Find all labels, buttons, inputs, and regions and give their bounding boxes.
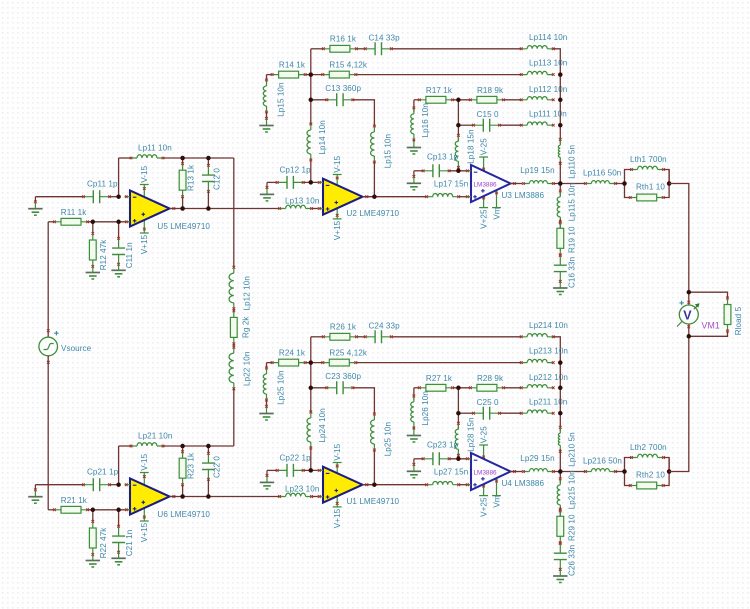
svg-text:U3 LM3886: U3 LM3886 <box>502 191 545 200</box>
power amp pin Vm of U3 LM3886 <box>496 187 498 208</box>
ground below C21 1n <box>118 552 120 558</box>
svg-text:Rg 2k: Rg 2k <box>242 316 251 338</box>
wire: power stage output <box>510 183 522 185</box>
wire <box>559 568 561 571</box>
svg-text:LM3886: LM3886 <box>474 469 498 476</box>
capacitor Cp22 1p <box>277 469 303 471</box>
svg-text:Vsource: Vsource <box>61 344 92 353</box>
svg-text:V+15: V+15 <box>333 508 342 528</box>
capacitor C14 33p <box>365 48 391 50</box>
wire <box>559 219 561 228</box>
ground below Lp26 10n <box>413 430 415 436</box>
wire <box>457 455 459 459</box>
svg-text:R12 47k: R12 47k <box>99 239 108 271</box>
inductor Lp114 10n <box>527 46 547 49</box>
svg-text:R25 4,12k: R25 4,12k <box>329 348 367 357</box>
power amp pin V-25 of U3 LM3886 <box>483 157 485 178</box>
wire <box>449 458 471 460</box>
op-amp power pin V+15 of U5 LME49710 <box>143 218 145 234</box>
wire <box>559 472 561 483</box>
op-amp power pin V+15 of U1 LME49710 <box>336 494 338 507</box>
wire <box>207 191 209 208</box>
power amp pin V+25 of U4 LM3886 <box>483 480 485 496</box>
ground <box>266 476 268 482</box>
svg-text:C21 1n: C21 1n <box>125 530 134 557</box>
wire: feedback top <box>119 445 131 447</box>
wire <box>182 197 184 209</box>
svg-text:Lp24 10n: Lp24 10n <box>318 408 327 442</box>
svg-text:C16 33n: C16 33n <box>567 257 576 288</box>
wire: R input row <box>48 509 54 511</box>
resistor R26 1k <box>323 336 356 338</box>
svg-text:Vm: Vm <box>492 207 501 219</box>
svg-text:Lp212 10n: Lp212 10n <box>529 373 568 382</box>
svg-text:Lp23 10n: Lp23 10n <box>285 484 319 493</box>
svg-text:V+15: V+15 <box>140 522 149 542</box>
wire <box>559 542 561 545</box>
wire <box>182 446 184 452</box>
svg-text:Lp25 10n: Lp25 10n <box>383 422 392 456</box>
wire: R16 row <box>311 336 324 338</box>
inductor Lp19 15n <box>529 181 547 184</box>
wire <box>688 292 690 305</box>
inductor Lp17 15n <box>433 194 453 197</box>
capacitor C11 1n <box>118 238 120 264</box>
ground below Lp15 10n <box>266 120 268 126</box>
inductor Lp18 15n <box>455 141 458 161</box>
svg-text:Cp12 1p: Cp12 1p <box>280 165 312 174</box>
svg-text:R18 9k: R18 9k <box>477 86 504 95</box>
power amp pin V+25 of U3 LM3886 <box>483 192 485 208</box>
svg-text:V+15: V+15 <box>333 220 342 240</box>
wire: C13 row <box>311 99 327 101</box>
resistor R11 1k <box>55 221 88 223</box>
resistor R28 9k <box>470 387 503 389</box>
power amp pin Vm of U4 LM3886 <box>496 475 498 496</box>
inductor Lth2 700n <box>638 454 658 457</box>
inductor Lp27 15n <box>433 482 453 485</box>
svg-text:Cp22 1p: Cp22 1p <box>280 453 312 462</box>
wire <box>92 510 94 522</box>
wire <box>207 158 209 165</box>
wire <box>615 471 624 473</box>
inductor Lp214 10n <box>527 334 547 337</box>
junction dots <box>116 194 121 199</box>
svg-text:Cp13 1p: Cp13 1p <box>427 153 459 162</box>
wire <box>233 309 235 311</box>
wire: bottom output to voltmeter <box>669 336 689 471</box>
svg-text:U4 LM3886: U4 LM3886 <box>502 479 545 488</box>
svg-text:Rth1 10: Rth1 10 <box>636 183 665 192</box>
svg-text:Lp210 5n: Lp210 5n <box>567 432 576 466</box>
svg-text:R13 1k: R13 1k <box>187 164 196 191</box>
svg-text:Lp111 10n: Lp111 10n <box>529 109 567 118</box>
resistor R22 47k <box>92 522 94 555</box>
svg-text:Lp27 15n: Lp27 15n <box>434 468 468 477</box>
capacitor Cp12 1p <box>277 181 303 183</box>
resistor R18 9k <box>470 99 503 101</box>
wire: R17 R18 row <box>414 99 420 101</box>
op-amp U1 LME49710 <box>323 467 363 503</box>
inductor Lp28 15n <box>455 429 458 449</box>
inductor Lth1 700n <box>638 166 658 169</box>
svg-text:U5 LME49710: U5 LME49710 <box>157 222 210 231</box>
resistor R27 1k <box>419 387 452 389</box>
svg-text:R11 1k: R11 1k <box>61 208 87 217</box>
junction dots at voltmeter <box>687 290 692 295</box>
svg-text:Lth2 700n: Lth2 700n <box>630 443 667 452</box>
inductor Lp21 10n <box>137 443 157 446</box>
capacitor Cp21 1p <box>84 484 110 486</box>
svg-text:V-15: V-15 <box>333 443 342 460</box>
wire <box>303 181 323 183</box>
svg-text:Lp110 5n: Lp110 5n <box>567 145 576 179</box>
wire <box>373 162 375 197</box>
svg-text:V+15: V+15 <box>140 234 149 254</box>
wire <box>559 254 561 257</box>
svg-text:C15 0: C15 0 <box>477 110 499 119</box>
resistor R16 1k <box>323 48 356 50</box>
svg-text:V+25: V+25 <box>479 209 488 229</box>
inductor Lp25 10n <box>371 420 375 444</box>
svg-text:Lth1 700n: Lth1 700n <box>630 155 667 164</box>
inductor Lp26 10n <box>411 402 414 422</box>
svg-text:R23 1k: R23 1k <box>187 452 196 479</box>
svg-text:V-25: V-25 <box>479 138 488 155</box>
ground below Lp25 10n <box>266 408 268 414</box>
op-amp power pin V-15 of U1 LME49710 <box>336 463 338 479</box>
resistor R21 1k <box>55 509 88 511</box>
svg-text:R26 1k: R26 1k <box>330 323 357 332</box>
wire: inverting node vertical <box>118 446 120 485</box>
svg-text:C12 0: C12 0 <box>213 168 222 190</box>
wire <box>266 363 268 368</box>
inductor Lp216 50n <box>591 469 609 472</box>
svg-text:C13 360p: C13 360p <box>325 84 361 93</box>
ground below R12 47k <box>92 267 94 273</box>
wire <box>303 469 323 471</box>
inductor Lp11 10n <box>137 155 157 158</box>
svg-text:V-25: V-25 <box>479 426 488 443</box>
wire: bus corner <box>553 49 560 75</box>
svg-text:Rth2 10: Rth2 10 <box>636 471 665 480</box>
svg-text:Vm: Vm <box>492 495 501 507</box>
op-amp power pin V-15 of U2 LME49710 <box>336 175 338 191</box>
svg-text:C23 360p: C23 360p <box>325 372 361 381</box>
wire: bus corner <box>553 337 560 363</box>
svg-text:R22 47k: R22 47k <box>99 527 108 559</box>
svg-text:Lp216 50n: Lp216 50n <box>583 457 622 466</box>
ground below C11 1n <box>118 264 120 270</box>
svg-text:R24 1k: R24 1k <box>279 348 306 357</box>
svg-text:Lp11 10n: Lp11 10n <box>138 144 172 153</box>
wire: input ground net top <box>35 196 83 198</box>
wire: R17 R18 row <box>414 387 420 389</box>
capacitor C15 0 <box>474 124 500 126</box>
capacitor C22 0 <box>207 453 209 479</box>
svg-text:Lp28 15n: Lp28 15n <box>467 417 476 451</box>
svg-text:C11 1n: C11 1n <box>125 242 134 268</box>
resistor R24 1k <box>272 362 305 364</box>
wire <box>559 449 561 471</box>
wire + ground for Cp12 1p <box>267 181 277 183</box>
ground below C16 33n <box>559 282 561 288</box>
ground below C26 33n <box>559 570 561 576</box>
svg-text:C26 33n: C26 33n <box>567 545 576 576</box>
inductor Lp215 10n <box>557 485 560 505</box>
inductor Lp24 10n <box>307 418 311 442</box>
inductor Lp210 5n <box>558 433 560 445</box>
svg-text:R21 1k: R21 1k <box>61 496 88 505</box>
svg-text:R17 1k: R17 1k <box>426 86 453 95</box>
wire: C13 row <box>311 387 327 389</box>
svg-text:R28 9k: R28 9k <box>477 374 504 383</box>
svg-text:Lp19 15n: Lp19 15n <box>520 166 554 175</box>
inductor Lp23 10n <box>286 493 306 496</box>
wire <box>615 183 624 185</box>
op-amp power pin V-15 of U5 LME49710 <box>143 185 145 201</box>
svg-text:Lp15 10n: Lp15 10n <box>276 82 285 116</box>
wire <box>559 507 561 516</box>
svg-text:Lp116 50n: Lp116 50n <box>583 169 621 178</box>
inductor Lp212 10n <box>527 385 547 388</box>
resistor R29 10 <box>559 510 561 543</box>
inductor Lp14 10n <box>307 130 311 154</box>
inductor Lp22 <box>229 353 234 383</box>
inductor Lp29 15n <box>529 469 547 472</box>
wire <box>449 170 471 172</box>
wire: R input row <box>48 221 54 223</box>
wire <box>413 388 415 400</box>
svg-text:V: V <box>683 308 692 322</box>
svg-text:C14 33p: C14 33p <box>369 33 401 42</box>
resistor Rth2 10 <box>630 485 663 487</box>
resistor R23 1k <box>182 452 184 485</box>
capacitor C12 0 <box>207 165 209 191</box>
wire <box>207 479 209 496</box>
wire: C15 row <box>458 412 473 414</box>
wire <box>457 100 459 142</box>
wire: feedback top <box>119 157 131 159</box>
wire + ground for Cp22 1p <box>267 469 277 471</box>
resistor Rth1 10 <box>630 197 663 199</box>
wire <box>182 485 184 497</box>
wire: second stage output <box>363 196 427 198</box>
voltmeter VM1 <box>687 301 690 304</box>
svg-text:Lp21 10n: Lp21 10n <box>138 432 172 441</box>
wire <box>457 388 459 430</box>
junction dots <box>116 482 121 487</box>
wire: first stage output <box>170 208 280 210</box>
svg-text:V+25: V+25 <box>479 497 488 517</box>
svg-text:Lp211 10n: Lp211 10n <box>529 397 567 406</box>
svg-text:Lp16 10n: Lp16 10n <box>421 103 430 137</box>
resistor R13 1k <box>182 164 184 197</box>
op-amp power pin V+15 of U6 LME49710 <box>143 506 145 522</box>
inductor Lp113 10n <box>527 71 547 74</box>
wire <box>233 344 235 348</box>
svg-text:R27 1k: R27 1k <box>426 374 453 383</box>
svg-text:Lp22 10n: Lp22 10n <box>242 352 251 386</box>
wire: R16 row <box>311 48 324 50</box>
wire <box>559 280 561 283</box>
svg-text:U6 LME49710: U6 LME49710 <box>157 510 210 519</box>
wire + ground for Cp13 1p <box>414 170 423 172</box>
wire <box>207 446 209 453</box>
svg-text:Lp213 10n: Lp213 10n <box>529 347 568 356</box>
svg-text:R19 10: R19 10 <box>567 226 576 253</box>
capacitor C24 33p <box>365 336 391 338</box>
svg-text:Lp15 10n: Lp15 10n <box>383 134 392 168</box>
svg-text:Lp17 15n: Lp17 15n <box>434 180 468 189</box>
svg-text:Cp11 1p: Cp11 1p <box>87 179 118 188</box>
svg-text:C25 0: C25 0 <box>477 398 499 407</box>
resistor R17 1k <box>419 99 452 101</box>
wire: feedback interconnect chain between channels <box>233 158 235 267</box>
wire <box>457 167 459 171</box>
inductor Lp115 10n <box>557 197 560 217</box>
inductor Lp13 10n <box>286 205 306 208</box>
ground below R22 47k <box>92 555 94 561</box>
voltage source Vsource <box>47 329 50 332</box>
power amp U3 LM3886 <box>471 165 511 202</box>
wire: four-coil bus vertical <box>559 75 561 144</box>
wire <box>413 428 415 430</box>
svg-text:Cp23 1p: Cp23 1p <box>427 441 459 450</box>
svg-text:C24 33p: C24 33p <box>369 321 401 330</box>
inductor Lp112 10n <box>527 97 547 100</box>
wire <box>233 388 235 446</box>
inductor Lp110 5n <box>558 145 560 157</box>
wire <box>559 184 561 195</box>
resistor R12 47k <box>92 234 94 267</box>
wire <box>110 196 119 198</box>
svg-text:VM1: VM1 <box>702 321 720 331</box>
wire: inverting node vertical <box>118 158 120 197</box>
capacitor C23 360p <box>327 387 353 389</box>
capacitor Cp11 1p <box>84 196 110 198</box>
inductor Lp12 <box>229 273 234 303</box>
op-amp power pin V-15 of U6 LME49710 <box>143 473 145 489</box>
svg-text:V-15: V-15 <box>140 453 149 470</box>
wire <box>373 450 375 485</box>
op-amp U6 LME49710 <box>130 479 170 515</box>
svg-text:Cp21 1p: Cp21 1p <box>87 467 119 476</box>
wire: inverting vertical of U1 LME49710 <box>310 446 312 470</box>
wire <box>559 161 561 183</box>
resistor R14 1k <box>272 74 305 76</box>
wire <box>310 49 312 124</box>
svg-text:Lp214 10n: Lp214 10n <box>529 321 568 330</box>
ground (input) <box>34 491 36 497</box>
inductor Lp211 10n <box>527 410 547 413</box>
inductor Lp16 10n <box>411 114 414 134</box>
resistor Rg <box>233 311 235 344</box>
svg-text:V-15: V-15 <box>140 165 149 182</box>
resistor Rload <box>689 292 728 298</box>
wire <box>266 75 268 80</box>
wire <box>92 222 94 234</box>
wire <box>118 510 120 527</box>
wire: four-coil bus vertical <box>559 363 561 432</box>
resistor R25 4,12k <box>323 362 356 364</box>
inductor Lp116 50n <box>591 181 609 184</box>
capacitor C13 360p <box>327 99 353 101</box>
svg-text:C22 0: C22 0 <box>213 456 222 478</box>
wire: Lth Rth parallel loop <box>625 170 632 184</box>
ground <box>413 465 415 471</box>
svg-text:Lp26 10n: Lp26 10n <box>421 391 430 425</box>
svg-text:Lp14 10n: Lp14 10n <box>318 120 327 154</box>
wire: R14 R15 row <box>267 74 273 76</box>
ground <box>266 188 268 194</box>
ground <box>413 177 415 183</box>
svg-text:Lp115 10n: Lp115 10n <box>567 183 576 221</box>
resistor R19 10 <box>559 222 561 255</box>
wire: Vsource vertical bottom <box>47 356 49 510</box>
op-amp U2 LME49710 <box>323 179 363 215</box>
inductor Lp25 10n <box>263 374 266 394</box>
wire <box>266 400 268 408</box>
wire: C15 row <box>458 124 473 126</box>
wire <box>110 484 119 486</box>
svg-text:Lp18 15n: Lp18 15n <box>467 129 476 163</box>
wire: R14 R15 row <box>267 362 273 364</box>
power amp pin V-25 of U4 LM3886 <box>483 445 485 466</box>
svg-text:V-15: V-15 <box>333 155 342 172</box>
capacitor C25 0 <box>474 412 500 414</box>
svg-text:Rload 5: Rload 5 <box>734 306 743 335</box>
ground (input) <box>34 203 36 209</box>
svg-text:LM3886: LM3886 <box>474 181 498 188</box>
svg-text:R14 1k: R14 1k <box>279 60 306 69</box>
svg-text:Lp114 10n: Lp114 10n <box>529 33 567 42</box>
wire: first stage output <box>170 496 280 498</box>
svg-text:Lp13 10n: Lp13 10n <box>285 196 319 205</box>
svg-text:R15 4,12k: R15 4,12k <box>329 60 367 69</box>
svg-text:Lp113 10n: Lp113 10n <box>529 59 567 68</box>
wire <box>413 140 415 142</box>
inductor Lp213 10n <box>527 359 547 362</box>
capacitor Cp23 1p <box>423 458 449 460</box>
svg-text:Lp25 10n: Lp25 10n <box>276 370 285 404</box>
wire <box>118 222 120 239</box>
svg-text:U2 LME49710: U2 LME49710 <box>347 209 400 218</box>
resistor R15 4,12k <box>323 74 356 76</box>
capacitor C21 1n <box>118 526 120 552</box>
wire <box>182 158 184 164</box>
op-amp U5 LME49710 <box>130 191 170 227</box>
svg-text:R29 10: R29 10 <box>567 514 576 541</box>
svg-text:Lp215 10n: Lp215 10n <box>567 470 576 509</box>
inductor Lp111 10n <box>527 122 547 125</box>
wire: input ground net bottom <box>35 484 83 486</box>
capacitor C26 33n <box>559 543 561 569</box>
wire <box>413 100 415 112</box>
svg-text:Lp12 10n: Lp12 10n <box>242 276 251 310</box>
wire: second stage output <box>363 484 427 486</box>
wire: top output to voltmeter <box>669 184 689 293</box>
wire + ground for Cp23 1p <box>414 458 423 460</box>
svg-text:Lp29 15n: Lp29 15n <box>520 454 554 463</box>
power amp U4 LM3886 <box>471 453 511 490</box>
wire: Vsource vertical top <box>47 222 49 337</box>
inductor Lp15 10n <box>371 132 375 156</box>
inductor Lp15 10n <box>263 86 266 106</box>
capacitor Cp13 1p <box>423 170 449 172</box>
svg-text:R16 1k: R16 1k <box>330 35 357 44</box>
wire: Lth Rth parallel loop <box>625 458 632 472</box>
